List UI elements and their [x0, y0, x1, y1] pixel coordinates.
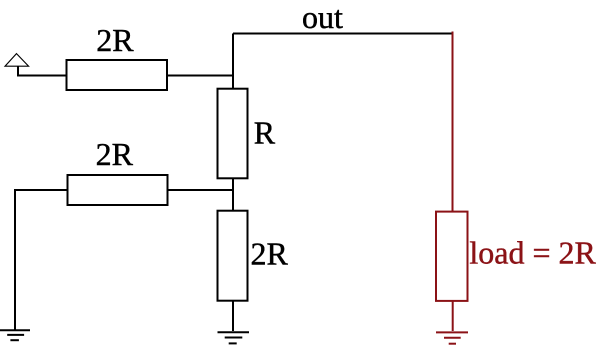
svg-text:2R: 2R — [96, 136, 134, 172]
wire out to load (red vertical) — [452, 32, 454, 212]
wire vertical node column top — [232, 34, 234, 89]
ground right (red) — [436, 332, 468, 343]
wire R1 to node out column — [167, 75, 233, 77]
wire R4 bottom to ground — [232, 301, 234, 331]
wire R2 bottom to R4 top — [232, 178, 234, 210]
resistor R3 2R (middle horizontal) — [68, 175, 168, 205]
wire out net horizontal — [233, 33, 452, 35]
wire RL bottom to ground (red) — [452, 301, 454, 331]
resistor RL load (right vertical, red) — [436, 212, 468, 301]
wire R3 to middle node — [167, 189, 233, 191]
ground middle — [218, 332, 250, 343]
resistor R4 2R (bottom middle vertical) — [218, 211, 248, 301]
resistor R2 R (middle vertical) — [218, 89, 248, 179]
svg-text:2R: 2R — [251, 235, 289, 271]
wire from input arrow to resistor R1 — [18, 66, 67, 75]
svg-text:load = 2R: load = 2R — [469, 235, 596, 271]
input arrow symbol — [5, 54, 29, 67]
svg-text:R: R — [254, 114, 276, 150]
svg-text:2R: 2R — [96, 22, 134, 58]
resistor R1 2R (top horizontal) — [67, 60, 168, 90]
svg-text:out: out — [302, 0, 343, 35]
wire R3 left to ground — [15, 190, 68, 330]
ground left — [0, 330, 30, 340]
